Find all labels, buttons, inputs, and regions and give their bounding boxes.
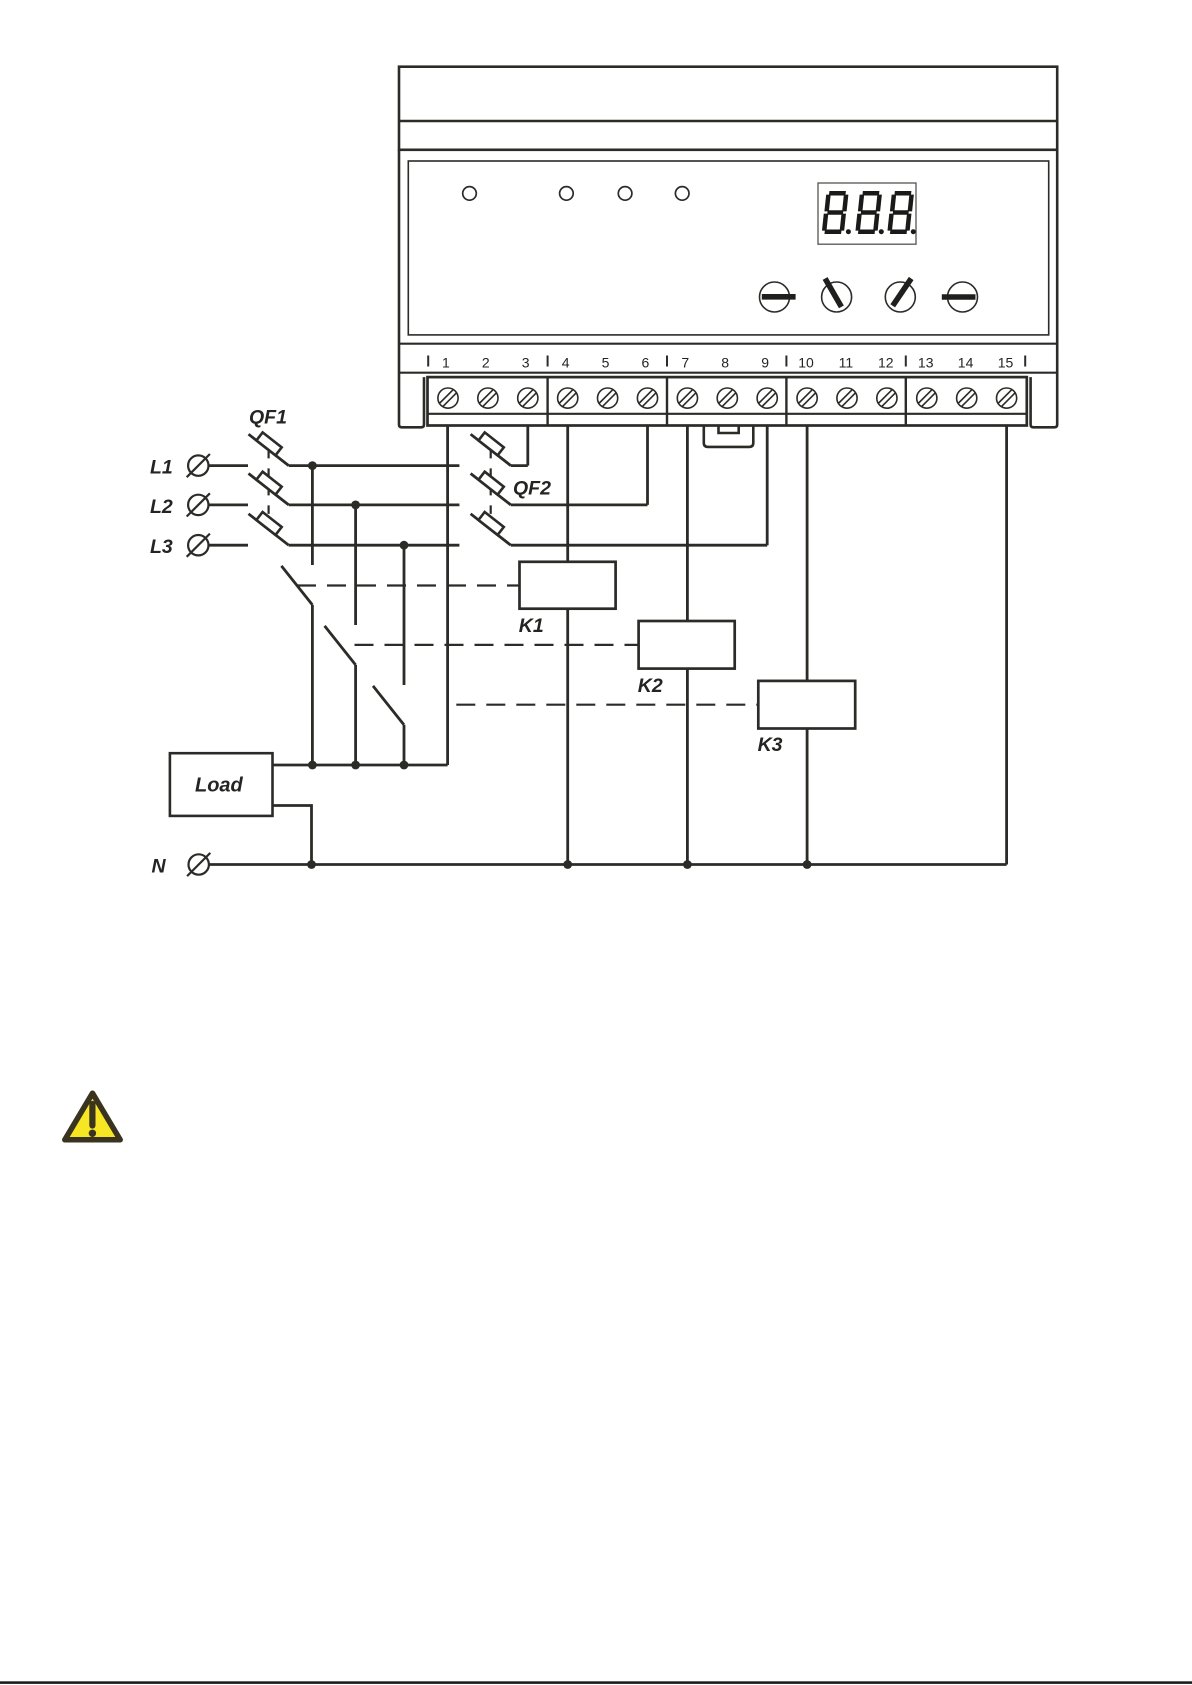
- decimal point 2: [879, 229, 884, 234]
- svg-text:K2: K2: [638, 675, 663, 697]
- circuit breaker QF1 pole 2: [249, 472, 289, 505]
- svg-text:2: 2: [482, 354, 490, 370]
- connector notch: [719, 426, 739, 433]
- svg-text:3: 3: [522, 354, 530, 370]
- svg-text:11: 11: [839, 354, 854, 370]
- device case divider: [399, 120, 1057, 123]
- QF2 pole2 output to terminal 6: [511, 503, 648, 506]
- LED 3: [618, 187, 632, 201]
- svg-text:13: 13: [918, 354, 934, 370]
- svg-text:1: 1: [442, 354, 450, 370]
- wire terminal10 down to N: [806, 426, 809, 865]
- relay coil K3: [758, 681, 855, 729]
- wire terminal9 down: [766, 426, 769, 546]
- junction dot L1: [308, 461, 317, 470]
- terminal block box: [428, 377, 1027, 425]
- QF1 mechanical link: [268, 450, 270, 530]
- terminal group divider 12|13: [905, 377, 907, 425]
- svg-text:6: 6: [642, 354, 650, 370]
- dashed link contact1 to K1: [297, 584, 520, 586]
- knob 3: [885, 282, 915, 312]
- junction dot load line 3: [400, 761, 409, 770]
- junction dot L2: [351, 501, 360, 510]
- display digit 3: [890, 193, 912, 231]
- svg-text:L1: L1: [150, 456, 173, 478]
- circuit breaker QF2 pole 2: [471, 472, 511, 505]
- L1 line after QF1: [289, 464, 460, 467]
- svg-text:Load: Load: [195, 775, 244, 797]
- svg-text:K1: K1: [519, 615, 544, 637]
- junction dot load line 2: [351, 761, 360, 770]
- main switch pole3 wires: [403, 545, 406, 685]
- LED 2: [560, 187, 574, 201]
- display window: [818, 183, 916, 244]
- svg-text:7: 7: [681, 354, 689, 370]
- terminal circle L2: [187, 493, 210, 516]
- relay coil K1: [520, 562, 616, 609]
- warning triangle: [65, 1093, 120, 1140]
- decimal point 1: [846, 229, 851, 234]
- svg-text:14: 14: [958, 354, 974, 370]
- knob 1: [760, 282, 790, 312]
- main contact pole 2: [325, 626, 356, 665]
- QF2 pole3 output to terminal 9: [511, 544, 767, 547]
- LED 1: [463, 187, 477, 201]
- svg-text:L3: L3: [150, 536, 173, 558]
- device right wall and foot: [1031, 150, 1058, 428]
- svg-text:N: N: [152, 855, 167, 877]
- terminal circle L3: [187, 534, 210, 557]
- device band line below numbers: [399, 372, 1057, 374]
- circuit breaker QF2 pole 3: [471, 512, 511, 545]
- main switch pole1 wires: [311, 466, 314, 565]
- svg-text:QF1: QF1: [249, 406, 287, 428]
- device left wall and foot: [399, 150, 424, 428]
- junction dot N load: [307, 860, 316, 869]
- decimal point 3: [911, 229, 916, 234]
- terminal group divider 9|10: [785, 377, 787, 425]
- knob 2: [822, 282, 852, 312]
- junction dot N K2: [683, 860, 692, 869]
- svg-text:5: 5: [602, 354, 610, 370]
- circuit breaker QF2 pole 1: [471, 432, 511, 465]
- L1 line left: [209, 464, 248, 467]
- main switch pole2 wires: [354, 505, 357, 625]
- QF2 pole1 output to terminal 3: [511, 464, 528, 467]
- QF2 mechanical link: [490, 450, 492, 530]
- L2 line left: [209, 503, 248, 506]
- terminal group divider 3|4: [546, 377, 548, 425]
- wire terminal15 down to N corner: [1005, 426, 1008, 865]
- bottom page rule: [0, 1681, 1192, 1684]
- junction dot N K3: [803, 860, 812, 869]
- svg-text:8: 8: [721, 354, 729, 370]
- wire terminal1 down to load line: [446, 426, 449, 766]
- dashed link contact2 to K2: [355, 644, 639, 646]
- terminal block inner line: [428, 413, 1027, 415]
- device band line above numbers: [399, 343, 1057, 345]
- circuit breaker QF1 pole 1: [249, 432, 289, 465]
- terminal circle L1: [187, 454, 210, 477]
- junction dot load line 1: [308, 761, 317, 770]
- L3 line left: [209, 544, 248, 547]
- N line: [209, 863, 1007, 866]
- main contact pole 1: [281, 566, 312, 605]
- circuit breaker QF1 pole 3: [249, 512, 289, 545]
- load second stub to N: [273, 806, 312, 865]
- junction dot N K1: [563, 860, 572, 869]
- terminal number ticks: [428, 356, 1025, 367]
- L3 line after QF1: [289, 544, 460, 547]
- display digit 1: [824, 193, 846, 231]
- svg-text:12: 12: [878, 354, 894, 370]
- wire terminal7 down to N: [686, 426, 689, 865]
- relay coil K2: [639, 621, 735, 669]
- connector plug below terminal 8: [704, 426, 754, 447]
- svg-text:L2: L2: [150, 496, 173, 518]
- svg-text:K3: K3: [758, 734, 783, 756]
- junction dot L3: [400, 541, 409, 550]
- device case top band: [399, 67, 1057, 150]
- knob 4: [948, 282, 978, 312]
- terminal group divider 6|7: [666, 377, 668, 425]
- svg-text:QF2: QF2: [513, 477, 551, 499]
- wire terminal3 down: [526, 426, 529, 466]
- display digit 2: [858, 193, 880, 231]
- wire terminal4 down to N: [566, 426, 569, 865]
- dashed link contact3 to K3: [456, 704, 758, 706]
- L2 line after QF1: [289, 503, 460, 506]
- labels: [150, 406, 783, 877]
- load line: [273, 764, 448, 767]
- svg-text:10: 10: [798, 354, 814, 370]
- main contact pole 3: [373, 686, 404, 725]
- Load box: [170, 753, 273, 816]
- svg-text:4: 4: [562, 354, 570, 370]
- screws 1-15: [438, 388, 458, 408]
- wire terminal6 down: [646, 426, 649, 505]
- svg-text:15: 15: [998, 354, 1014, 370]
- LED 4: [675, 187, 689, 201]
- svg-text:9: 9: [761, 354, 769, 370]
- front panel: [408, 161, 1048, 335]
- terminal circle N: [187, 853, 210, 876]
- terminal numbers 1-15: [442, 354, 1013, 370]
